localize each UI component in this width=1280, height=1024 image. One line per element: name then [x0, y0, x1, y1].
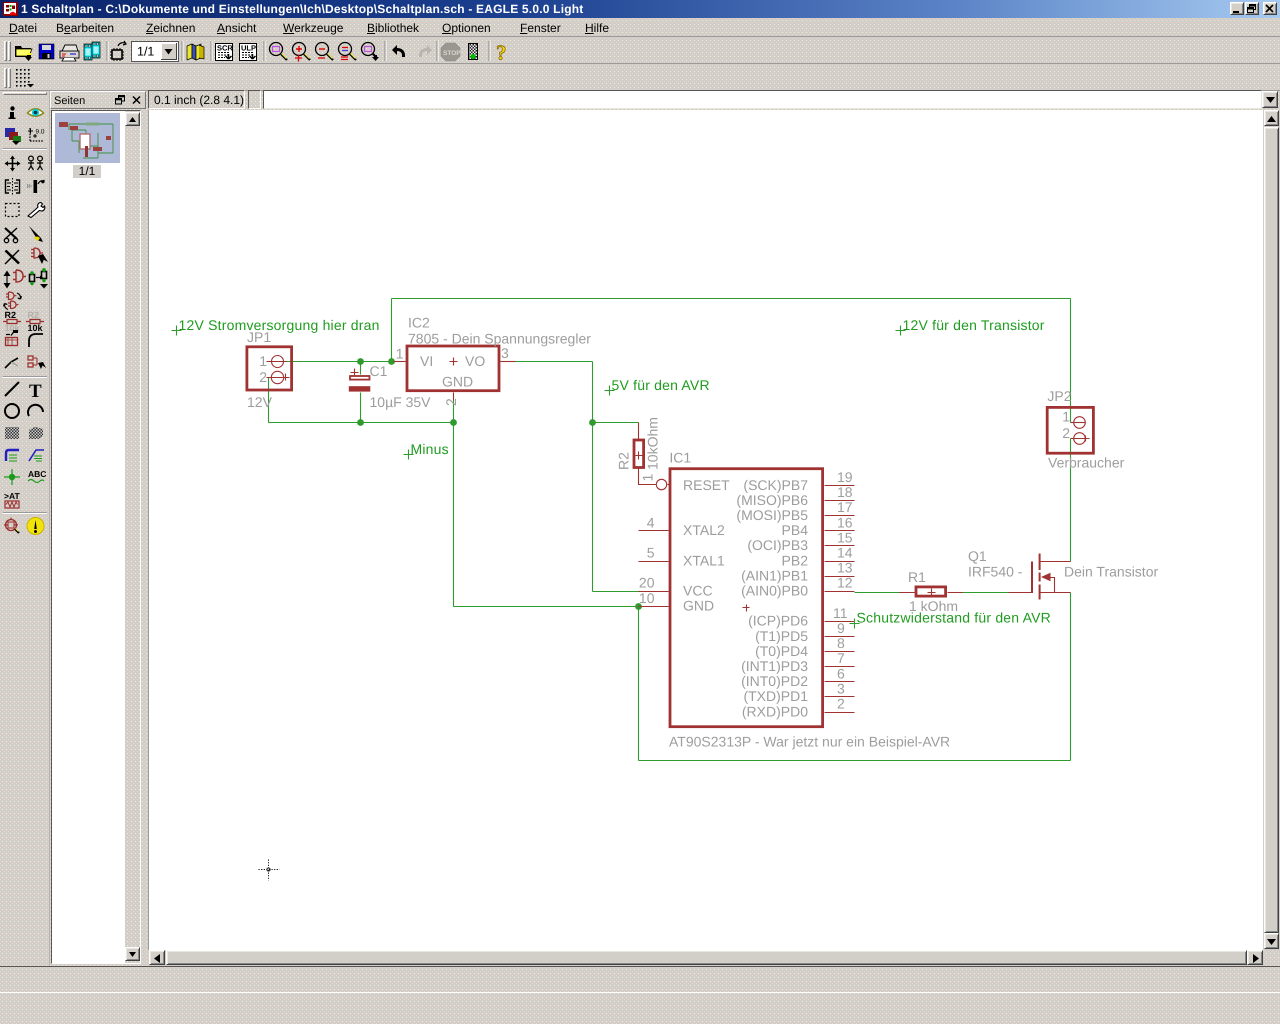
svg-text:9: 9: [837, 620, 845, 636]
gateswap icon: [6, 292, 17, 300]
wire minus to IC1 GND: [454, 606, 639, 608]
IC2 pin label GND: [442, 374, 473, 390]
stop icon (disabled): [441, 43, 460, 61]
separator: [3, 376, 47, 378]
IC1 pin number 15: [837, 529, 853, 545]
separator: [3, 148, 47, 150]
JP2 pin number 1: [1062, 409, 1070, 425]
svg-text:PB4: PB4: [782, 522, 809, 538]
IC2 value label: [408, 331, 591, 347]
library books icon: [187, 44, 192, 60]
net label 12V Stromversorgung (origin cross): [172, 317, 380, 336]
pages scrollbar: [125, 111, 140, 963]
svg-text:5: 5: [647, 545, 655, 561]
svg-text:GND: GND: [683, 598, 714, 614]
svg-text:VI: VI: [420, 353, 433, 369]
IC1 pin number 18: [837, 484, 853, 500]
bus icon: [6, 450, 19, 461]
IC1 pin label XTAL1: [683, 552, 725, 568]
IC1 pin label (TXD)PD1: [743, 688, 808, 704]
junction 5V node: [589, 419, 596, 426]
svg-text:(AIN1)PB1: (AIN1)PB1: [741, 567, 808, 583]
IC1 pin number 4: [647, 515, 655, 531]
drawing canvas: [148, 110, 1263, 950]
zoom redraw icon: [339, 43, 352, 56]
Q1 value label: [968, 564, 1023, 580]
svg-text:20: 20: [639, 575, 655, 591]
left command toolbar dock: [0, 91, 50, 966]
IC2 pin number 1: [396, 346, 404, 362]
JP2 name label: [1047, 388, 1071, 404]
svg-text:10: 10: [639, 590, 655, 606]
paste icon: [29, 226, 43, 242]
svg-text:Schutzwiderstand für den AVR: Schutzwiderstand für den AVR: [857, 610, 1051, 626]
svg-text:R2: R2: [616, 452, 632, 470]
arc icon: [28, 405, 43, 416]
wire IC1 PB0 to R1: [855, 592, 900, 594]
wire IC1 GND down: [638, 607, 640, 761]
redo icon (disabled): [419, 45, 432, 57]
wire 5V down to VCC row: [592, 423, 594, 592]
svg-text:Dein Transistor: Dein Transistor: [1064, 564, 1158, 580]
wire R1 to Q1 gate: [963, 592, 1009, 594]
R1 value label: [909, 598, 958, 614]
toolbar row 1: [0, 38, 1280, 64]
svg-text:(RXD)PD0: (RXD)PD0: [742, 703, 808, 719]
save icon: [39, 44, 54, 59]
svg-text:?: ?: [496, 41, 507, 65]
C1 name label: [370, 363, 388, 379]
change/wrench icon: [28, 203, 45, 218]
IC1 pin label (AIN0)PB0: [741, 583, 808, 599]
svg-text:(OCI)PB3: (OCI)PB3: [747, 537, 808, 553]
svg-text:VCC: VCC: [683, 583, 713, 599]
IC1 pin label (INT0)PD2: [741, 673, 808, 689]
IC1 value label: [669, 734, 950, 750]
wire to IC1 VCC: [593, 591, 639, 593]
label icon: [29, 450, 44, 461]
svg-text:6: 6: [837, 665, 845, 681]
select group icon: [6, 204, 20, 217]
sheet combo box: [132, 42, 179, 62]
zoom fit icon: [270, 43, 283, 56]
zoom select icon: [362, 43, 375, 56]
vertical scrollbar: [1264, 110, 1280, 950]
IC2 pin label VI: [420, 353, 433, 369]
svg-text:XTAL2: XTAL2: [683, 522, 725, 538]
JP1 pin number 2: [259, 369, 267, 385]
svg-text:7: 7: [837, 650, 845, 666]
junction at C1 top: [357, 358, 364, 365]
replace icon: [30, 275, 35, 282]
JP1 name label: [247, 329, 271, 345]
C1 value label: [370, 394, 432, 410]
info icon: [10, 106, 14, 110]
cut icon: [5, 228, 17, 239]
IC1 pin number 3: [837, 680, 845, 696]
svg-text:IC2: IC2: [408, 315, 430, 331]
IC1 pin label (MOSI)PB5: [736, 507, 808, 523]
errors icon: [27, 518, 44, 535]
svg-text:ABC: ABC: [28, 469, 46, 479]
zoom out icon: [316, 43, 329, 56]
SCR icon: [216, 44, 233, 61]
IC1 pin label (MISO)PB6: [736, 492, 808, 508]
pinswap icon: [5, 272, 10, 288]
wire +12V top rail: [392, 298, 1071, 300]
svg-text:8: 8: [837, 635, 845, 651]
traffic light icon: [468, 43, 478, 60]
connector JP2: [1047, 407, 1093, 453]
net label Schutzwiderstand fuer den AVR: [850, 610, 1051, 629]
svg-text:2: 2: [259, 369, 267, 385]
IC1 pin label (SCK)PB7: [743, 477, 808, 493]
IC1 pin number 20: [639, 575, 655, 591]
svg-text:1: 1: [1062, 409, 1070, 425]
junction minus bus corner: [450, 419, 457, 426]
svg-text:10kOhm: 10kOhm: [645, 417, 661, 470]
wire JP2 pin2 to Q1 drain: [1070, 439, 1072, 562]
svg-text:(INT0)PD2: (INT0)PD2: [741, 673, 808, 689]
IC1 pin number 2: [837, 696, 845, 712]
svg-text:12: 12: [837, 575, 853, 591]
svg-text:(MISO)PB6: (MISO)PB6: [736, 492, 808, 508]
cursor origin cross mark: [259, 860, 280, 881]
grid dots icon: [16, 69, 30, 87]
IC1 pin label (INT1)PD3: [741, 658, 808, 674]
wire C1 bottom to minus bus: [360, 393, 362, 423]
svg-text:RESET: RESET: [683, 477, 730, 493]
Q1 note Dein Transistor: [1064, 564, 1158, 580]
IC2 pin number 3: [501, 345, 509, 361]
svg-text:3: 3: [501, 345, 509, 361]
svg-text:T: T: [29, 381, 42, 402]
svg-text:19: 19: [837, 469, 853, 485]
IC1 pin number 6: [837, 665, 845, 681]
svg-text:Verbraucher: Verbraucher: [1048, 455, 1125, 471]
IC1 pin number 10: [639, 590, 655, 606]
IC1 pin number 5: [647, 545, 655, 561]
svg-text:1: 1: [640, 474, 656, 482]
group icon: [28, 156, 43, 170]
IC1 pin number 8: [837, 635, 845, 651]
IC1 pin number 13: [837, 560, 853, 576]
svg-text:SCR: SCR: [217, 44, 233, 53]
JP1 value 12V: [247, 394, 273, 410]
window title bar: [0, 0, 1280, 18]
smash icon: [6, 338, 18, 346]
svg-text:5V für den AVR: 5V für den AVR: [612, 377, 710, 393]
erc icon: [6, 520, 17, 531]
svg-text:(ICP)PD6: (ICP)PD6: [748, 613, 808, 629]
wire bottom rail: [639, 760, 1071, 762]
ULP icon: [240, 44, 257, 61]
IC2 name label: [408, 315, 430, 331]
IC1 pin number 12: [837, 575, 853, 591]
svg-text:1/1: 1/1: [137, 45, 154, 59]
board icon: [112, 50, 122, 59]
svg-text:15: 15: [837, 529, 853, 545]
IC1 pin label (T1)PD5: [755, 628, 808, 644]
svg-text:10k: 10k: [28, 323, 44, 333]
open icon: [15, 46, 31, 57]
svg-text:C1: C1: [370, 363, 388, 379]
svg-text:16: 16: [837, 514, 853, 530]
IC1 pin label XTAL2: [683, 522, 725, 538]
wire IC2 VO to 5V node: [516, 361, 593, 363]
IC1 pin number 16: [837, 514, 853, 530]
separator: [3, 512, 47, 514]
move icon: [7, 158, 18, 169]
add icon: [31, 248, 43, 258]
svg-text:2: 2: [1062, 425, 1070, 441]
IC1 pin label PB4: [782, 522, 809, 538]
svg-text:VO: VO: [465, 353, 485, 369]
svg-text:R2: R2: [5, 310, 17, 320]
svg-text:XTAL1: XTAL1: [683, 552, 725, 568]
IC1 pin label (OCI)PB3: [747, 537, 808, 553]
wire minus bus: [269, 422, 454, 424]
svg-text:(MOSI)PB5: (MOSI)PB5: [736, 507, 808, 523]
IC2 pin number 2: [443, 398, 459, 406]
IC2 pin label VO: [465, 353, 485, 369]
canvas top param row: [148, 90, 245, 109]
wire 5V to R2: [593, 422, 639, 424]
svg-text:IC1: IC1: [669, 450, 691, 466]
polygon icon: [29, 427, 43, 439]
status bar: [0, 966, 1280, 1024]
copy icon: [6, 180, 20, 193]
capacitor C1: [349, 369, 371, 392]
IC1 pin label (T0)PD4: [755, 643, 808, 659]
IC1 pin label RESET: [683, 477, 730, 493]
IC1 pin label VCC: [683, 583, 713, 599]
junction at IC2 VI node: [388, 358, 395, 365]
mark icon: [30, 128, 43, 141]
show/eye icon: [28, 109, 44, 117]
connector JP1: [247, 347, 292, 390]
svg-text:(SCK)PB7: (SCK)PB7: [743, 477, 808, 493]
IC1 pin label (RXD)PD0: [742, 703, 808, 719]
microcontroller IC1: [639, 469, 855, 727]
svg-text:3: 3: [837, 680, 845, 696]
transistor Q1 IRF540: [1009, 554, 1071, 600]
IC1 pin number 9: [837, 620, 845, 636]
undo icon: [392, 45, 405, 57]
wire 5V vertical: [592, 362, 594, 423]
svg-text:PB2: PB2: [782, 552, 809, 568]
invoke icon: [28, 356, 33, 367]
R2 value 10kOhm (rotated): [645, 417, 661, 470]
svg-text:ULP: ULP: [241, 44, 256, 53]
svg-text:Q1: Q1: [968, 548, 987, 564]
svg-text:R2: R2: [28, 310, 40, 320]
Q1 name label: [968, 548, 987, 564]
IC1 pin number 14: [837, 545, 853, 561]
IC1 pin number 7: [837, 650, 845, 666]
net label 12V fuer den Transistor: [896, 317, 1045, 336]
JP2 pin number 2: [1062, 425, 1070, 441]
R1 name label: [908, 569, 926, 585]
svg-text:(TXD)PD1: (TXD)PD1: [743, 688, 808, 704]
split icon: [5, 358, 18, 368]
junction at C1 bottom bus: [357, 419, 364, 426]
svg-text:11: 11: [833, 605, 848, 621]
wire +12V left drop to IC2 VI: [391, 299, 393, 362]
IC1 pin number 19: [837, 469, 853, 485]
net label 5V fuer den AVR: [605, 377, 710, 396]
resistor R2: [634, 423, 667, 490]
svg-text:12V für den Transistor: 12V für den Transistor: [903, 317, 1045, 333]
svg-text:IRF540 -: IRF540 -: [968, 564, 1023, 580]
svg-text:2: 2: [443, 398, 459, 406]
svg-text:12V: 12V: [247, 394, 273, 410]
display/layers icon: [5, 128, 15, 137]
svg-text:Minus: Minus: [411, 441, 449, 457]
IC1 pin label PB2: [782, 552, 809, 568]
svg-text:2: 2: [837, 696, 845, 712]
page thumbnail 1/1 selected: [55, 113, 120, 163]
rect icon: [5, 427, 19, 439]
svg-text:1: 1: [396, 346, 404, 362]
svg-text:17: 17: [837, 499, 853, 515]
wire +12V right rail to JP2 pin1: [1070, 299, 1072, 423]
JP1 pin number 1: [259, 353, 267, 369]
delete icon: [6, 251, 20, 264]
svg-text:AT90S2313P - War jetzt nur ein: AT90S2313P - War jetzt nur ein Beispiel-…: [669, 734, 950, 750]
net label Minus: [404, 441, 449, 460]
wire icon: [5, 382, 19, 396]
IC1 pin label GND: [683, 598, 714, 614]
svg-text:1: 1: [259, 353, 267, 369]
IC1 pin label (AIN1)PB1: [741, 567, 808, 583]
wire minus vertical drop: [453, 423, 455, 607]
svg-text:STOP: STOP: [443, 50, 461, 57]
IC1 name label: [669, 450, 691, 466]
svg-text:(INT1)PD3: (INT1)PD3: [741, 658, 808, 674]
IC1 pin label (ICP)PD6: [748, 613, 808, 629]
svg-text:JP2: JP2: [1047, 388, 1071, 404]
svg-text:10k: 10k: [5, 323, 21, 333]
svg-text:>AT: >AT: [4, 491, 20, 501]
svg-text:7805 - Dein Spannungsregler: 7805 - Dein Spannungsregler: [408, 331, 591, 347]
svg-text:18: 18: [837, 484, 853, 500]
svg-text:GND: GND: [442, 374, 473, 390]
IC1 pin number 17: [837, 499, 853, 515]
mirror icon: [34, 180, 38, 193]
svg-text:4: 4: [647, 515, 655, 531]
voltage regulator IC2 7805: [394, 346, 516, 401]
svg-text:14: 14: [837, 545, 853, 561]
wire IC2 GND to bus: [453, 401, 455, 423]
svg-text:R1: R1: [908, 569, 926, 585]
circle icon: [5, 404, 19, 418]
resistor R1: [900, 587, 963, 597]
menu bar: [0, 18, 1280, 37]
pages panel: [49, 91, 50, 966]
horizontal scrollbar: [148, 950, 1263, 966]
IC1 pin number 1 (rotated): [640, 474, 656, 482]
junction icon: [9, 474, 15, 480]
svg-text:(AIN0)PB0: (AIN0)PB0: [741, 583, 808, 599]
svg-text:13: 13: [837, 560, 853, 576]
wire C1 top connection: [360, 362, 362, 375]
junction IC1 GND node: [635, 603, 642, 610]
svg-text:(T1)PD5: (T1)PD5: [755, 628, 808, 644]
svg-text:10µF 35V: 10µF 35V: [370, 394, 432, 410]
svg-text:9.0: 9.0: [36, 129, 45, 136]
R2 name label (rotated): [616, 452, 632, 470]
toolbar row 2: [0, 65, 1280, 91]
zoom in icon: [293, 43, 306, 56]
wire JP1 pin1 to IC2 VI: [286, 361, 394, 363]
cam icon: [84, 44, 92, 60]
IC1 pin number 11: [833, 605, 848, 621]
miter icon: [29, 334, 43, 347]
svg-text:12V Stromversorgung hier dran: 12V Stromversorgung hier dran: [179, 317, 380, 333]
JP2 value Verbraucher: [1048, 455, 1125, 471]
svg-text:(T0)PD4: (T0)PD4: [755, 643, 808, 659]
wire JP1 pin2 drop: [268, 378, 270, 423]
wire source up from bottom rail: [1070, 593, 1072, 761]
print icon: [62, 45, 78, 51]
